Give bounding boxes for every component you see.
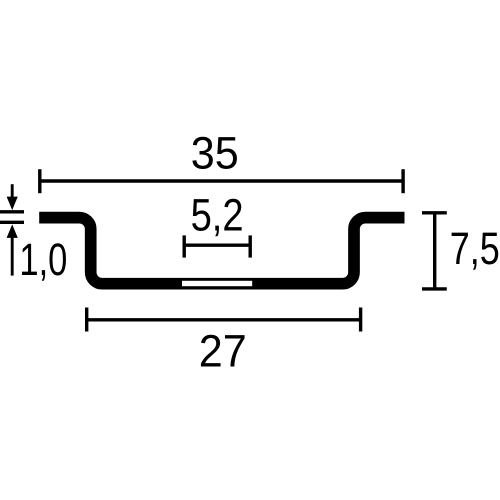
slot opening in base xyxy=(182,281,252,286)
thickness arrows 1,0 xyxy=(0,184,24,275)
dimension line 7,5 xyxy=(422,213,447,289)
svg-text:27: 27 xyxy=(199,326,247,377)
DIN rail profile outline xyxy=(39,218,404,284)
svg-text:35: 35 xyxy=(191,128,239,179)
dimension line 27 xyxy=(87,308,361,332)
svg-text:7,5: 7,5 xyxy=(450,223,500,274)
svg-text:1,0: 1,0 xyxy=(19,234,67,285)
dimension line 5,2 xyxy=(184,235,250,257)
dimension line 35 xyxy=(40,169,403,193)
svg-text:5,2: 5,2 xyxy=(191,189,244,240)
